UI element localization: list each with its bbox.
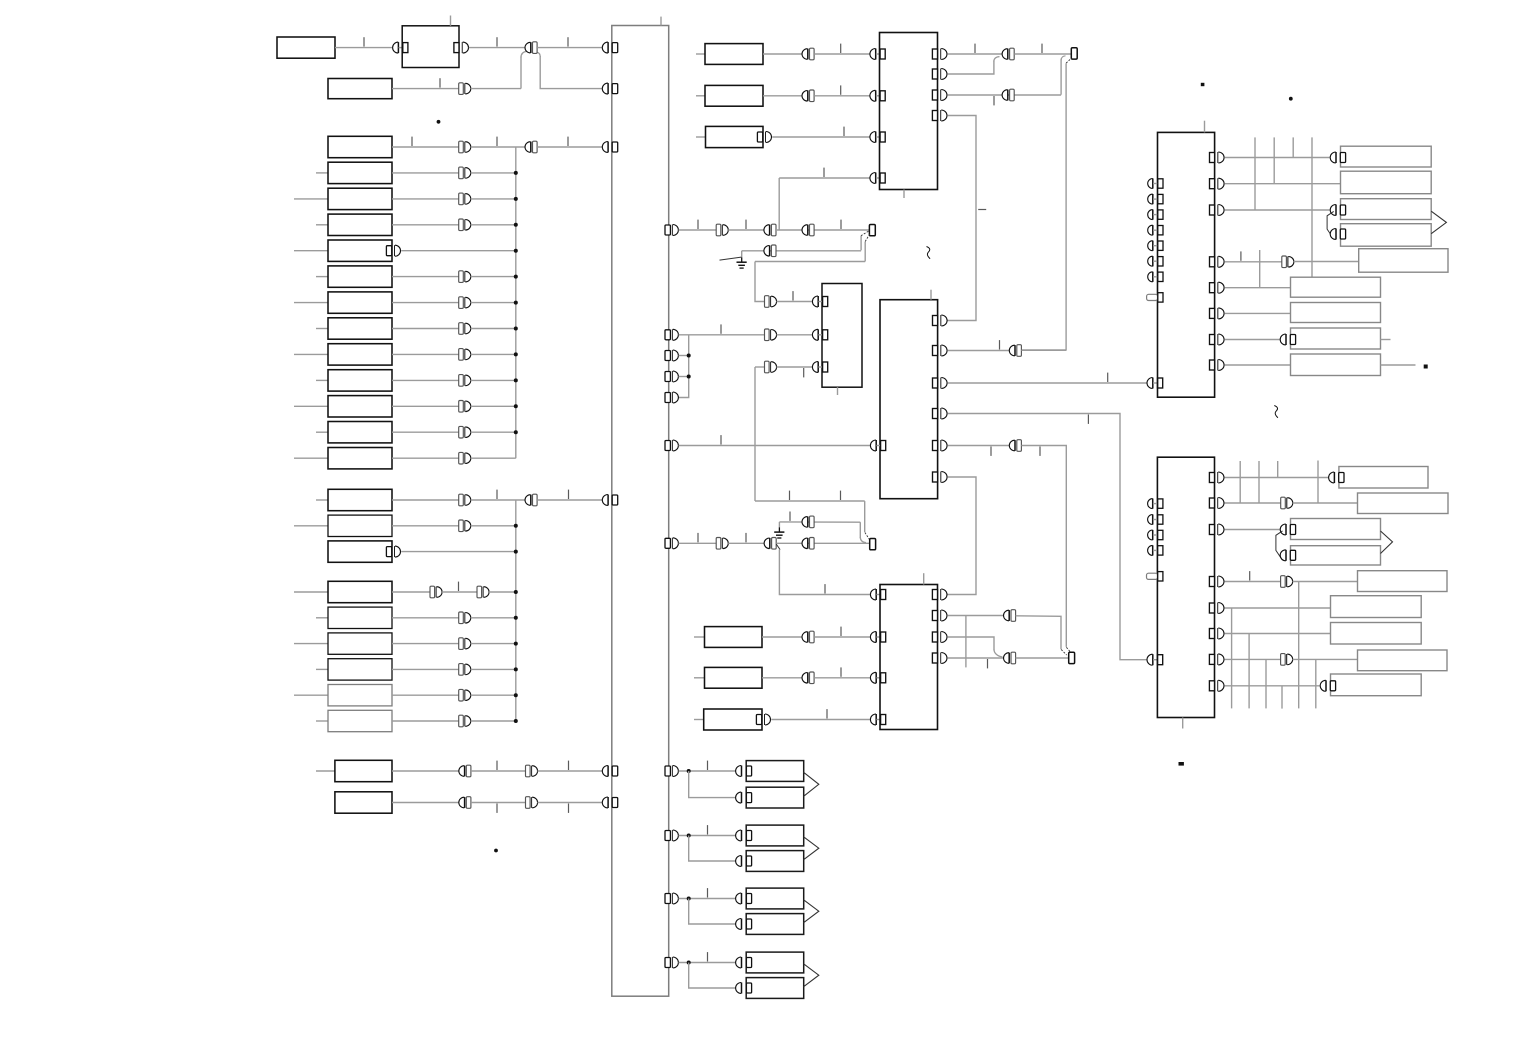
leg joint [994,57,1000,62]
wire [1294,261,1359,263]
wave mark [927,247,931,259]
stray dot [1289,97,1293,101]
output register box [1339,467,1428,489]
bus output buffer [665,225,678,236]
U3 input pin [812,296,827,307]
net tick [363,37,365,46]
wire U1 to junction [469,47,525,49]
ground [737,257,747,268]
inline buffer [765,329,777,341]
wire [771,719,870,721]
input port box B [328,79,392,99]
long net wire [1021,63,1066,350]
signal box [328,515,392,536]
wire [392,525,459,527]
wire to U6 [779,550,870,595]
U2 input pin [870,173,885,184]
net tick [707,888,709,897]
signal box [328,659,392,680]
inline buffer [459,219,471,231]
bus input buffer [602,42,617,53]
net tick [1249,571,1251,580]
stray square [1424,365,1428,369]
net join [1066,58,1071,63]
bus output buffer [665,957,678,968]
net tick [993,96,995,105]
inline buffer [765,361,777,373]
wire [471,770,526,772]
inline buffer [1002,89,1014,101]
net tick [411,137,413,146]
inline buffer [459,452,471,464]
signal box [328,396,392,417]
output port box [746,952,804,973]
left stub [694,636,705,638]
wire [755,261,865,263]
net join [861,231,869,236]
net tick [458,582,460,591]
bus tap wire [1239,461,1241,503]
wire [947,615,1003,617]
output port box [746,761,804,782]
IC U2 [880,33,938,190]
fanout wire [1231,608,1233,708]
inline buffer [525,494,537,506]
wire [392,198,459,200]
inline buffer [459,638,471,650]
junction [514,404,518,408]
wire [777,334,812,336]
wire buffer to leg [471,88,521,90]
wire [1224,157,1329,159]
U2 output pin [932,49,947,60]
bus tap wire [1311,137,1313,277]
box input buffer [1280,334,1295,345]
inline buffer [802,631,814,643]
wire [814,53,870,55]
U7 output pin [1209,680,1224,691]
net tick [568,490,570,499]
box output pin [756,714,770,725]
wire [947,445,1009,447]
signal box [328,214,392,235]
IC U3 [822,284,862,388]
net join [1061,650,1066,656]
wire [772,136,870,138]
net tick [1107,373,1109,382]
junction [514,693,518,697]
output port box [746,914,804,935]
signal box [328,541,392,562]
wire to bus [537,146,602,148]
group1 collector wire [515,147,517,458]
U2 output pin [932,110,947,121]
U2 input pin [870,132,885,143]
box input buffer [736,919,752,930]
net tick [840,85,842,94]
leg joint [1061,56,1065,61]
net tick [707,825,709,834]
junction [514,590,518,594]
inline buffer [459,83,471,95]
wire [1224,477,1328,479]
wire to collector [471,172,516,174]
net tick [707,952,709,961]
output register box [1331,623,1422,645]
inline buffer [459,612,471,624]
left stub [294,353,328,355]
signal box [328,136,392,157]
inline buffer [459,520,471,532]
wire [1224,183,1340,185]
wire B to buffer [392,88,459,90]
box input buffer [1330,205,1345,216]
left stub [316,172,328,174]
inline buffer [459,689,471,701]
wire [947,53,1002,55]
output port box [746,851,804,872]
junction [514,327,518,331]
net tick [496,804,498,813]
wire [679,445,870,447]
wire to collector [471,198,516,200]
fanout wire [1298,582,1300,709]
wire to collector [471,643,516,645]
leg joint [521,51,527,57]
signal box [328,162,392,183]
junction [514,275,518,279]
U5 constant pin [1147,293,1163,302]
junction [514,197,518,201]
wire U4 to U7 [947,477,976,595]
net tick [496,761,498,770]
inline buffer [716,224,728,236]
wire [392,379,459,381]
U3 bottom pin stub [837,387,839,395]
junction [514,171,518,175]
junction [514,616,518,620]
inline buffer [764,245,776,257]
wire [728,542,764,544]
ground lead [720,257,742,260]
net tick [990,447,992,456]
wire [1021,349,1066,351]
wire [392,328,459,330]
output port box [746,978,804,999]
wire to collector [471,720,516,722]
U7 output pin [1209,603,1224,614]
junction [687,354,691,358]
bus output buffer [665,350,678,361]
stray square [1201,83,1205,86]
wire [947,637,994,650]
pair arrow [1431,211,1446,234]
pair arrow [804,772,819,796]
wire [755,500,865,502]
wire [755,262,765,302]
wire [814,677,870,679]
U5 output pin [1210,152,1225,163]
IC U5 [1158,132,1215,397]
ground [774,527,784,538]
output register box [1358,650,1448,671]
junction [514,550,518,554]
bus output buffer [665,392,678,403]
signal box [328,422,392,443]
box input buffer [1320,680,1335,691]
output register box [1341,146,1432,167]
IC U4 [880,300,938,499]
output register box [1291,303,1381,323]
wire [471,146,526,148]
group2 collector wire [515,500,517,721]
net tick [697,220,699,229]
wire [392,770,459,772]
U5 output pin [1210,256,1225,267]
left stub [696,136,706,138]
wire [1224,658,1280,660]
wire [947,657,1003,659]
inline buffer junction [525,42,537,54]
bus output buffer [665,830,678,841]
inline buffer [459,297,471,309]
IC U6 [880,585,938,730]
wire [392,457,459,459]
inline buffer [459,167,471,179]
box input buffer [736,792,752,803]
leg joint [860,537,866,543]
net tick [568,761,570,770]
wire [763,95,802,97]
wire [471,499,526,501]
bus tap wire [1317,461,1319,504]
wire [392,431,459,433]
left stub [316,720,328,722]
fan wire [679,335,689,398]
bus input buffer [602,142,617,153]
net tick [745,533,747,542]
input port box [705,627,763,648]
U6 output pin [932,610,947,621]
inline buffer [525,141,537,153]
inline buffer [459,375,471,387]
left stub [294,591,328,593]
wire U4 to U6 [947,414,1146,660]
box input buffer [1330,229,1345,240]
U6 output pin [932,653,947,664]
ground riser [778,522,780,527]
U5 unconnected input pin [1148,194,1163,204]
U5 input pin [1147,378,1163,389]
box input buffer [736,830,752,841]
wire [777,366,812,368]
net tick [496,490,498,499]
wire [392,694,459,696]
inline buffer [802,538,814,550]
wire [392,720,459,722]
branch wire [689,771,736,798]
box input buffer [1330,152,1345,163]
wire U4 to U5 [947,382,1146,384]
wire [392,146,459,148]
signal box [328,370,392,391]
U7 output pin [1209,472,1224,483]
signal box [328,318,392,339]
signal box [335,760,392,781]
U4 output pin [933,408,948,419]
signal box [328,292,392,313]
pair arrow [804,964,819,987]
net tick [823,168,825,177]
bus output buffer [665,893,678,904]
left stub [316,431,328,433]
signal box [328,607,392,628]
U3 input pin [812,362,827,373]
wire [1016,657,1069,659]
wire to bus [537,499,602,501]
inline buffer [459,323,471,335]
U2 input pin [870,49,885,60]
IC U7 [1157,457,1214,717]
signal box [328,188,392,209]
U5 top pin stub [1204,121,1206,133]
inline buffer [764,224,776,236]
inline buffer [802,516,814,528]
wire [679,770,736,772]
wire [755,366,765,368]
box input buffer [1329,472,1344,483]
net tick [1240,251,1242,260]
wire [471,802,526,804]
inline buffer [764,538,776,550]
inline buffer [430,586,442,598]
wire [762,677,802,679]
U6 input pin [870,632,885,643]
U6 output pin [932,632,947,643]
bus tap wire [1259,250,1261,288]
output register box [1331,596,1422,618]
net join [865,533,870,540]
output port box [746,825,804,846]
inline buffer [802,48,814,60]
net tick [792,291,794,300]
wire U2 to U4 [947,116,976,321]
U7 unconnected input pin [1148,545,1163,555]
wire [763,53,802,55]
U1 input pin [393,42,408,53]
wire [679,229,717,231]
net pad [870,539,876,550]
U1 top pin stub [450,16,452,26]
inline buffer [1281,497,1293,509]
fanout wire [1248,634,1250,709]
output register box [1341,171,1432,194]
box output pin [757,132,771,143]
wire [1224,287,1290,289]
right stub [1381,339,1391,341]
wire [814,636,870,638]
net tick [720,435,722,444]
junction [514,430,518,434]
inline buffer [1004,610,1016,622]
riser wire [1060,59,1062,94]
wire to collector [471,276,516,278]
left stub [316,379,328,381]
wire to collector [471,694,516,696]
wire [1224,633,1330,635]
bus tap wire [1292,137,1294,157]
inline buffer [526,765,538,777]
signal box [328,266,392,287]
stub wire [679,355,689,357]
U3 input pin [812,329,827,340]
branch wire [778,178,780,230]
net tick [840,220,842,229]
U6 top pin stub [923,573,925,584]
pair arrow [804,837,819,860]
left stub [694,677,705,679]
net tick [824,584,826,593]
net join [865,234,870,242]
wire to collector [471,379,516,381]
inline buffer [1002,48,1014,60]
left stub [294,694,328,696]
U7 bottom pin stub [1182,718,1184,729]
input port box [706,126,764,147]
inline buffer [1282,256,1294,268]
output register box [1359,249,1448,273]
input port box [705,667,763,688]
wire to collector [471,353,516,355]
wire [1014,53,1071,55]
U7 unconnected input pin [1148,499,1163,509]
output register box [1331,674,1422,696]
box input buffer [736,983,752,994]
U4 output pin [933,345,948,356]
output register box [1291,519,1381,540]
U2 output pin [932,69,947,80]
output register box [1291,328,1381,349]
branch wire [689,963,736,989]
net tick [789,512,791,521]
wire [392,668,459,670]
wire [392,617,459,619]
U7 unconnected input pin [1148,530,1163,540]
inline buffer [716,538,728,550]
wire to collector [471,405,516,407]
net tick [1087,415,1089,424]
wire [1224,209,1329,211]
output port box [746,888,804,909]
net tick [1041,44,1043,53]
wire [679,334,765,336]
stray dot [437,120,441,124]
wire to collector [471,328,516,330]
U5 output pin [1210,308,1225,319]
wire [1293,581,1358,583]
net tick [439,78,441,87]
net tick [978,209,986,211]
inline buffer [802,672,814,684]
U7 output pin [1209,654,1224,665]
junction [514,223,518,227]
U6 input pin [870,589,885,600]
leg joint [537,52,540,57]
U6 input pin [870,714,885,725]
signal box [328,344,392,365]
U6 input pin [1147,654,1163,665]
wave mark [1274,406,1278,418]
